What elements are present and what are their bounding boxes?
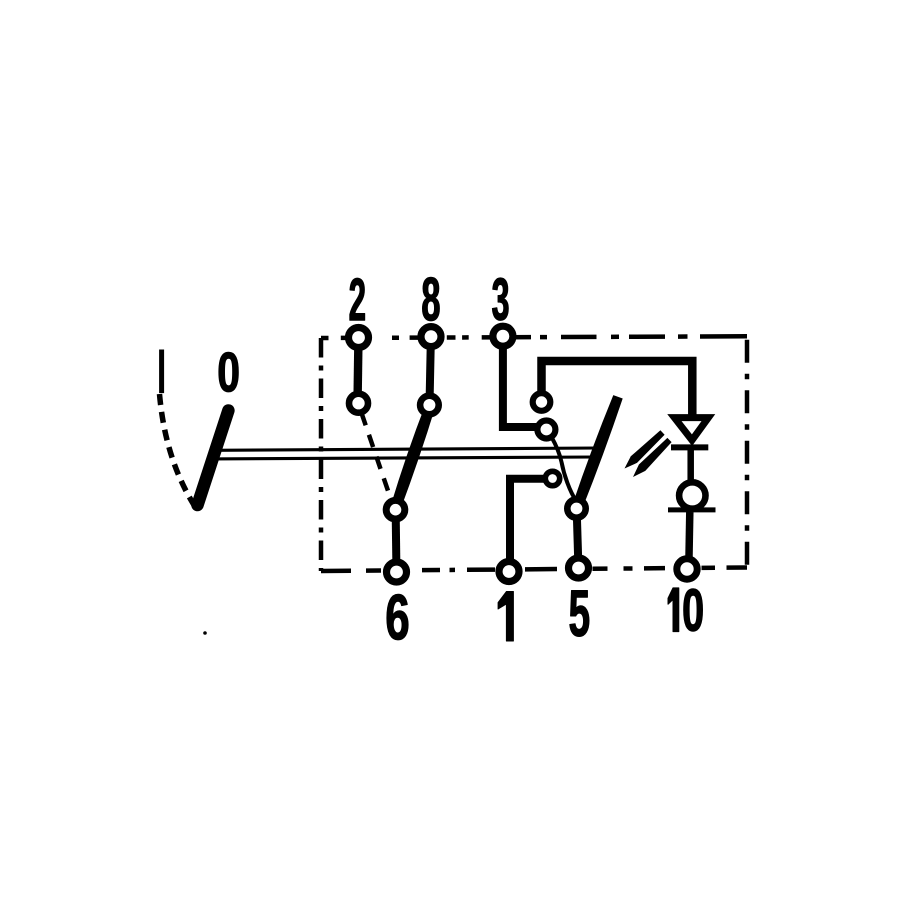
- pole B alternate travel (thin curve B to pivot): [552, 437, 577, 502]
- terminal 2: [349, 328, 369, 348]
- label 10 digit 0: [684, 589, 703, 631]
- lever alternate position (dashed): [160, 394, 195, 505]
- wire contact S1 to terminal 1: [510, 479, 548, 566]
- terminal 10: [677, 559, 697, 579]
- housing border left (dash-dot): [319, 338, 324, 571]
- switch arm pole A alternate (2 to 6, dashed): [362, 413, 392, 501]
- LED emission arrow 2: [633, 438, 672, 477]
- label 6: [387, 594, 408, 640]
- lever (actuator, position 0): [198, 411, 229, 506]
- switch arm pole A (8 to 6, solid): [390, 403, 436, 512]
- label 3: [492, 278, 508, 321]
- terminal 5: [569, 558, 589, 578]
- housing border top (dash-dot): [321, 336, 747, 338]
- switch arm pole B (open, tilted): [572, 395, 622, 508]
- wire contact A to LED feed: [542, 361, 693, 415]
- wire terminal 2 to contact: [353, 342, 362, 398]
- contact A (LED feed): [533, 393, 551, 411]
- housing border bottom (dash-dot): [321, 568, 747, 572]
- terminal 8: [421, 327, 441, 347]
- label 1: [498, 592, 513, 642]
- wire pivot to terminal 6: [392, 515, 401, 567]
- contact B (from terminal 3): [537, 421, 555, 439]
- housing border right (dash-dot): [745, 336, 750, 567]
- wire terminal 3 to contact B: [503, 342, 539, 427]
- LED cathode bar: [671, 444, 708, 450]
- pivot of pole A: [386, 500, 405, 519]
- linkage bar upper line: [214, 448, 598, 450]
- contact S1 (to terminal 1): [545, 471, 559, 485]
- label 0: [219, 352, 238, 392]
- label 10 digit 1: [668, 588, 679, 632]
- pivot of pole B: [567, 499, 585, 517]
- linkage bar lower line: [211, 457, 595, 459]
- contact below 8: [420, 396, 439, 415]
- label I (position I): [159, 350, 164, 394]
- contact below 2: [349, 394, 368, 413]
- wire lamp to terminal 10: [685, 512, 693, 562]
- LED emission arrow 1: [625, 430, 665, 468]
- label 8: [423, 277, 440, 321]
- lamp circle: [679, 482, 705, 508]
- label 2: [350, 278, 365, 320]
- wire terminal 8 to contact: [430, 342, 431, 401]
- terminal 3: [493, 326, 513, 346]
- stray scan dot: [203, 631, 207, 635]
- wire pivot to terminal 5: [577, 514, 579, 564]
- lamp lower bar: [668, 507, 716, 512]
- LED diode triangle: [674, 418, 708, 441]
- label 5: [570, 591, 589, 637]
- terminal 1: [499, 562, 519, 582]
- wire cathode to lamp: [687, 448, 694, 483]
- terminal 6: [387, 562, 407, 582]
